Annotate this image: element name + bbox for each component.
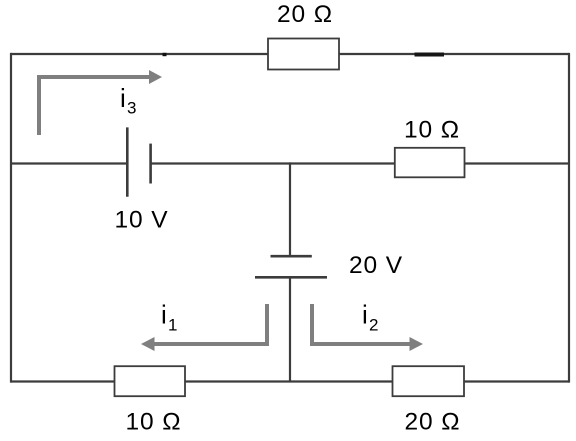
battery V1 short plate (149, 144, 152, 184)
svg-text:3: 3 (127, 99, 136, 118)
wire middle left segment (11, 162, 127, 164)
resistor 10 ohm bottom left (115, 366, 186, 396)
svg-text:20 V: 20 V (349, 252, 403, 279)
svg-text:i: i (161, 300, 167, 330)
wire left edge (10, 53, 12, 383)
wire center vertical lower (289, 277, 291, 382)
wire bottom edge right segment (464, 380, 569, 382)
svg-text:10 V: 10 V (115, 207, 169, 234)
svg-text:20 Ω: 20 Ω (405, 409, 461, 436)
wire top edge left segment (11, 53, 268, 55)
resistor 20 ohm top (268, 39, 339, 70)
wire top edge right segment (339, 53, 569, 55)
svg-text:i: i (362, 300, 368, 330)
arrow i3 (39, 77, 150, 135)
wire thick segment on top edge (415, 53, 445, 57)
resistor 20 ohm bottom right (393, 366, 465, 396)
svg-text:1: 1 (168, 316, 177, 335)
arrow i3 head (149, 70, 162, 84)
wire center vertical upper (289, 162, 291, 256)
svg-text:10 Ω: 10 Ω (126, 409, 182, 436)
arrow i2 (312, 304, 410, 344)
svg-text:i: i (120, 83, 126, 113)
resistor 10 ohm right (395, 148, 465, 178)
node dot on top wire (163, 53, 167, 56)
arrow i1 head (141, 337, 155, 351)
svg-text:2: 2 (369, 316, 378, 335)
wire bottom edge middle segment (185, 380, 393, 382)
svg-text:10 Ω: 10 Ω (404, 117, 460, 144)
arrow i1 (154, 304, 267, 344)
battery V2 short plate (271, 255, 312, 258)
wire middle center segment (151, 162, 395, 164)
arrow i2 head (410, 337, 424, 351)
battery V1 long plate (126, 127, 129, 196)
wire bottom edge left segment (11, 380, 115, 382)
wire right edge (568, 53, 570, 383)
wire middle right segment (465, 162, 570, 164)
svg-text:20 Ω: 20 Ω (277, 1, 333, 28)
battery V2 long plate (255, 276, 327, 279)
